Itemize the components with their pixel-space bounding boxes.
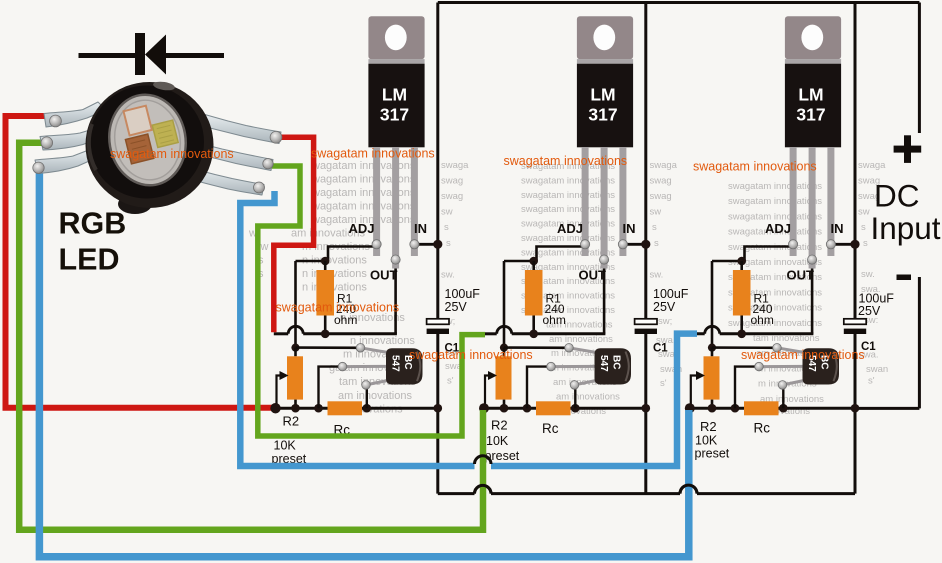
junction rail end node (block 2) <box>642 404 651 413</box>
svg-text:DC: DC <box>874 178 920 214</box>
wire R1 bottom lead (block 2) <box>532 316 535 334</box>
wire IN pin to input rail (block 2) <box>623 243 646 246</box>
junction rail start node (block 2) <box>479 403 489 413</box>
wire hop over ADJ vertical on OUT rail (block 2) <box>497 326 512 333</box>
capacitor C1 (block 2) <box>635 319 657 334</box>
svg-text:317: 317 <box>588 105 617 125</box>
transistor Q3 pin pads <box>755 344 787 390</box>
label ADJ (block 3) <box>765 221 791 236</box>
resistor Rc (block 1) <box>328 401 363 415</box>
wire green LED loop (left) to block2 rail <box>19 143 483 530</box>
wire R2 bottom lead (block 1) <box>294 400 297 409</box>
junction R1 bottom node (block 2) <box>529 330 538 339</box>
regulator U1 LM317 band <box>368 59 424 64</box>
svg-text:317: 317 <box>380 105 409 125</box>
transistor Q1 pin pads <box>338 344 370 390</box>
regulator U3 label LM317 <box>796 84 825 124</box>
svg-text:am innovations: am innovations <box>549 334 613 345</box>
resistor Rc (block 2) <box>536 401 571 415</box>
svg-text:OUT: OUT <box>370 268 398 283</box>
label Rc (block 1) <box>334 423 351 438</box>
wire blue LED to block3 OUT rail part1 <box>240 191 474 466</box>
wire hop over ADJ vertical on OUT rail (block 1) <box>288 326 303 333</box>
label C1 value 100uF 25V (block 3) <box>858 292 894 319</box>
label R2 value 10K preset (block 3) <box>695 434 730 461</box>
junction emitter node (block 3) <box>779 404 788 413</box>
wire OUT pin down (block 3) <box>811 260 814 334</box>
svg-text:s': s' <box>868 376 875 387</box>
svg-text:s: s <box>863 238 868 249</box>
svg-text:25V: 25V <box>858 304 881 318</box>
wire R1 top lead (block 2) <box>532 261 535 270</box>
RGB LED chips <box>119 100 181 164</box>
label OUT (block 1) <box>370 268 398 283</box>
junction emitter node (block 2) <box>571 404 580 413</box>
label C1 value 100uF 25V (block 2) <box>653 287 689 314</box>
svg-text:s: s <box>861 222 866 233</box>
label C1 (block 2) <box>653 343 668 355</box>
label R1 240 ohm (block 2) <box>543 292 566 327</box>
regulator U2 leg OUT <box>601 147 608 269</box>
svg-text:25V: 25V <box>653 300 676 314</box>
regulator U2 leg ADJ <box>582 147 589 256</box>
wire R2 top lead (block 2) <box>503 348 506 357</box>
svg-text:100uF: 100uF <box>445 287 481 301</box>
wire bottom negative rail <box>438 492 855 495</box>
svg-text:am innovations: am innovations <box>556 391 620 402</box>
label DC Input <box>871 178 941 247</box>
svg-text:s: s <box>654 238 659 249</box>
svg-text:swagatam innovations: swagatam innovations <box>728 196 822 207</box>
svg-text:swaga: swaga <box>441 160 469 171</box>
svg-text:n innovations: n innovations <box>302 268 367 280</box>
svg-text:LED: LED <box>59 243 120 277</box>
RGB LED pin pads <box>33 115 282 193</box>
wire input rail vertical (block 1) <box>436 3 439 494</box>
label IN (block 1) <box>414 221 427 236</box>
svg-text:10K: 10K <box>695 434 718 448</box>
resistor R1 (block 3) <box>733 270 751 316</box>
resistor R1 (block 2) <box>525 270 543 316</box>
wire emitter rail (block 3) <box>689 407 855 410</box>
pin pad ADJ (block 3) <box>789 240 798 249</box>
svg-text:BC: BC <box>611 355 622 369</box>
junction IN node (block 3) <box>850 240 859 249</box>
wire emitter to rail (block 1) <box>366 385 368 408</box>
wire hop green over blue <box>475 456 492 464</box>
label R2 (block 3) <box>700 419 717 434</box>
wire ADJ node down to R2/collector node (block 2) <box>503 261 506 348</box>
transistor Q2 BC547 leads <box>551 348 597 385</box>
pin pad ADJ (block 2) <box>581 240 590 249</box>
label IN (block 2) <box>623 221 636 236</box>
svg-text:swagatam innovations: swagatam innovations <box>693 160 817 174</box>
wire R1 top lead (block 1) <box>324 261 327 270</box>
svg-text:swagatam innovations: swagatam innovations <box>741 348 865 362</box>
svg-text:R2: R2 <box>700 419 717 434</box>
decorative orange watermark texture <box>110 147 865 363</box>
wire ADJ node down to R2/collector node (block 1) <box>294 261 297 348</box>
svg-text:ADJ: ADJ <box>765 221 791 236</box>
junction R1 top node (block 3) <box>737 257 746 266</box>
junction R1 top node (block 2) <box>529 257 538 266</box>
svg-text:preset: preset <box>695 447 730 461</box>
junction rail start node (block 3) <box>685 403 695 413</box>
junction emitter node (block 1) <box>363 404 372 413</box>
regulator U1 LM317 hole <box>385 25 407 51</box>
svg-text:25V: 25V <box>445 300 468 314</box>
svg-text:s': s' <box>660 378 667 389</box>
svg-text:sw: sw <box>650 207 662 218</box>
wire input rail vertical (block 3) <box>854 3 857 494</box>
plus terminal symbol <box>894 135 922 163</box>
regulator U2 LM317 tab <box>577 16 633 59</box>
transistor Q3 BC547 body <box>803 348 840 384</box>
svg-text:10K: 10K <box>274 439 297 453</box>
svg-text:ohm: ohm <box>751 313 774 327</box>
svg-text:10K: 10K <box>486 434 509 448</box>
junction red/wiper/rail start node (block 1) <box>270 403 280 413</box>
svg-text:s: s <box>652 222 657 233</box>
label R1 240 ohm (block 1) <box>334 292 357 327</box>
regulator U1 LM317 body <box>368 64 424 148</box>
wire input rail vertical (block 2) <box>644 3 647 494</box>
wire ADJ pin to R1 top node (block 1) <box>296 247 377 262</box>
regulator U2 LM317 band <box>577 59 633 64</box>
label C1 (block 1) <box>445 343 460 355</box>
wire green LED to block2 OUT rail <box>258 166 485 436</box>
wire R1 bottom lead (block 1) <box>324 316 327 334</box>
pin pad OUT (block 2) <box>600 255 609 264</box>
svg-text:swaga: swaga <box>858 160 886 171</box>
junction R2 bottom node (block 2) <box>500 404 509 413</box>
regulator U2 LM317 body <box>577 64 633 148</box>
svg-text:sw.: sw. <box>441 270 455 281</box>
svg-text:IN: IN <box>831 221 844 236</box>
wire OUT rail (block 2) <box>482 332 605 335</box>
svg-text:wagatam innovations: wagatam innovations <box>311 187 416 199</box>
svg-text:swagatam innovations: swagatam innovations <box>728 181 822 192</box>
svg-text:100uF: 100uF <box>653 287 689 301</box>
regulator U1 leg ADJ <box>373 147 380 256</box>
capacitor C1 (block 1) <box>427 319 449 334</box>
wire collector node to Q pin (block 1) <box>296 346 361 349</box>
capacitor C1 (block 3) <box>844 319 866 334</box>
svg-text:sw: sw <box>441 207 453 218</box>
label IN (block 3) <box>831 221 844 236</box>
junction rail end node (block 1) <box>434 404 443 413</box>
label Rc (block 2) <box>542 421 559 436</box>
junction R1 top node (block 1) <box>321 257 330 266</box>
wire R2 wiper arrow (block 1) <box>277 371 289 408</box>
label Rc (block 3) <box>754 421 771 436</box>
regulator U3 leg ADJ <box>790 147 797 256</box>
wire R2 wiper arrow (block 2) <box>485 371 497 408</box>
wire hop over ADJ vertical on OUT rail (block 3) <box>705 326 720 333</box>
junction R1 bottom node (block 3) <box>737 330 746 339</box>
pin pad IN (block 1) <box>410 240 419 249</box>
regulator U1 label LM317 <box>380 84 409 124</box>
wire OUT rail (block 3) <box>688 332 813 335</box>
label OUT (block 2) <box>579 268 607 283</box>
wire collector node to Q pin (block 2) <box>504 346 569 349</box>
preset R2 (block 2) <box>496 356 512 399</box>
wire minus to block3 rail <box>855 407 919 410</box>
svg-text:swag: swag <box>650 176 672 187</box>
wire +V top rail <box>438 1 920 4</box>
wire red LED to block1 OUT rail <box>274 137 314 332</box>
regulator U2 label LM317 <box>588 84 617 124</box>
svg-text:R2: R2 <box>491 418 508 433</box>
wire IN pin to input rail (block 1) <box>414 243 437 246</box>
svg-text:sw.: sw. <box>861 269 875 280</box>
svg-text:swagatam innovations: swagatam innovations <box>276 300 400 314</box>
wire base to rail (block 1) <box>319 367 343 409</box>
regulator U1 leg OUT <box>392 147 399 269</box>
svg-text:swagatam innovations: swagatam innovations <box>504 154 628 168</box>
wire R1 top lead (block 3) <box>740 261 743 270</box>
svg-text:s: s <box>444 222 449 233</box>
svg-text:IN: IN <box>623 221 636 236</box>
RGB LED pins <box>35 102 281 195</box>
RGB LED lens <box>102 89 193 192</box>
wire hop redraw bottom rail arcs <box>475 485 698 493</box>
label ADJ (block 2) <box>557 221 583 236</box>
wire R2 bottom lead (block 3) <box>711 400 714 409</box>
svg-text:swag: swag <box>441 191 463 202</box>
regulator U1 leg IN <box>411 147 418 256</box>
transistor Q2 pin pads <box>547 344 579 390</box>
svg-text:wagatam innovations: wagatam innovations <box>311 201 416 213</box>
svg-text:sw;: sw; <box>658 316 672 327</box>
diode symbol cathode bar <box>135 33 145 75</box>
regulator U3 LM317 tab <box>785 16 841 59</box>
junction ADJ/R2/collector node (block 2) <box>500 344 508 352</box>
junction base node (block 1) <box>314 404 323 413</box>
label C1 value 100uF 25V (block 1) <box>445 287 481 314</box>
resistor R1 (block 1) <box>316 270 334 316</box>
wire R2 bottom lead (block 2) <box>503 400 506 409</box>
junction IN node (block 1) <box>433 240 442 249</box>
preset R2 (block 3) <box>704 356 720 399</box>
regulator U2 LM317 hole <box>593 25 615 51</box>
svg-text:Rc: Rc <box>754 421 771 436</box>
wire blue LED loop (left) to block3 rail <box>39 168 688 557</box>
svg-text:Rc: Rc <box>542 421 559 436</box>
wire red LED anode loop (left) <box>6 116 275 408</box>
label R2 value 10K preset (block 1) <box>272 439 307 467</box>
regulator U3 LM317 body <box>785 64 841 148</box>
svg-text:RGB: RGB <box>59 207 127 241</box>
svg-text:am innovations: am innovations <box>338 390 412 402</box>
decorative gray watermark texture <box>248 160 888 417</box>
pin pad OUT (block 1) <box>391 255 400 264</box>
regulator U3 LM317 hole <box>801 25 823 51</box>
svg-text:547: 547 <box>390 355 401 372</box>
wire OUT pin down (block 2) <box>603 260 606 334</box>
svg-text:swagatam innovations: swagatam innovations <box>409 348 533 362</box>
label OUT (block 3) <box>787 268 815 283</box>
svg-text:s: s <box>446 238 451 249</box>
transistor Q3 BC547 leads <box>759 348 805 385</box>
svg-text:sw: sw <box>858 207 870 218</box>
svg-text:547: 547 <box>598 355 609 372</box>
transistor Q1 BC547 body <box>386 348 423 384</box>
label R1 240 ohm (block 3) <box>751 292 774 327</box>
transistor Q1 BC547 leads <box>343 348 389 385</box>
wire emitter rail (block 2) <box>483 407 646 410</box>
label R2 value 10K preset (block 2) <box>485 434 520 463</box>
wire R2 top lead (block 3) <box>711 348 714 357</box>
wire R2 top lead (block 1) <box>294 348 297 357</box>
wire blue LED to block3 OUT rail part2 <box>491 334 697 466</box>
minus terminal symbol <box>897 275 912 281</box>
transistor Q2 BC547 body <box>595 348 632 384</box>
svg-text:swag: swag <box>441 176 463 187</box>
svg-text:swag: swag <box>650 191 672 202</box>
svg-text:ADJ: ADJ <box>557 221 583 236</box>
regulator U3 LM317 band <box>785 59 841 64</box>
regulator U1 LM317 tab <box>368 16 424 59</box>
regulator U2 leg IN <box>619 147 626 256</box>
svg-text:ohm: ohm <box>334 313 357 327</box>
wire emitter to rail (block 3) <box>782 385 784 408</box>
junction ADJ/R2/collector node (block 1) <box>291 344 299 352</box>
resistor Rc (block 3) <box>744 401 779 415</box>
svg-text:n innovations: n innovations <box>302 282 367 294</box>
svg-text:ohm: ohm <box>543 313 566 327</box>
svg-text:swaga: swaga <box>650 160 678 171</box>
wire ADJ pin to R1 top node (block 2) <box>504 247 585 262</box>
preset R2 (block 1) <box>287 356 303 399</box>
svg-text:OUT: OUT <box>579 268 607 283</box>
label C1 (block 3) <box>861 341 876 353</box>
regulator U3 leg IN <box>827 147 834 256</box>
wire ADJ node down to R2/collector node (block 3) <box>711 261 714 348</box>
pin pad IN (block 3) <box>826 240 835 249</box>
wire base to rail (block 3) <box>735 367 759 409</box>
wire OUT rail (block 1) <box>274 332 397 335</box>
wire ADJ pin to R1 top node (block 3) <box>712 247 793 262</box>
wire R1 bottom lead (block 3) <box>740 316 743 334</box>
wire collector node to Q pin (block 3) <box>712 346 777 349</box>
svg-text:C1: C1 <box>653 343 668 355</box>
junction rail end node (block 3) <box>851 404 860 413</box>
wire hop over blue at bottom rail <box>680 485 697 493</box>
pin pad IN (block 2) <box>618 240 627 249</box>
junction R2 bottom node (block 1) <box>291 404 300 413</box>
wire minus terminal drop <box>918 277 921 408</box>
svg-text:Input: Input <box>871 210 941 246</box>
wire emitter rail (block 1) <box>275 407 438 410</box>
wire +V right drop to plus terminal <box>918 3 921 134</box>
svg-text:IN: IN <box>414 221 427 236</box>
wire hop over green at bottom rail <box>475 485 492 493</box>
svg-text:wagatam innovations: wagatam innovations <box>311 174 416 186</box>
svg-text:OUT: OUT <box>787 268 815 283</box>
svg-text:s': s' <box>447 376 454 387</box>
svg-text:swan: swan <box>866 364 888 375</box>
label R2 (block 2) <box>491 418 508 433</box>
junction IN node (block 2) <box>641 240 650 249</box>
label RGB LED <box>59 207 127 277</box>
wire OUT pin down (block 1) <box>394 260 397 334</box>
junction ADJ/R2/collector node (block 3) <box>708 344 716 352</box>
junction R1 bottom node (block 1) <box>321 330 330 339</box>
RGB LED body <box>86 80 214 214</box>
svg-text:LM: LM <box>798 84 823 104</box>
svg-text:LM: LM <box>382 84 407 104</box>
pin pad ADJ (block 1) <box>372 240 381 249</box>
diode symbol <box>79 35 225 75</box>
label ADJ (block 1) <box>349 221 375 236</box>
svg-text:wagatam innovations: wagatam innovations <box>311 160 416 172</box>
svg-text:317: 317 <box>796 105 825 125</box>
junction base node (block 3) <box>731 404 740 413</box>
svg-text:R2: R2 <box>283 414 300 429</box>
label R2 (block 1) <box>283 414 300 429</box>
svg-text:swagatam innovations: swagatam innovations <box>311 147 435 161</box>
wire R2 wiper arrow (block 3) <box>691 371 705 408</box>
junction R2 bottom node (block 3) <box>708 404 717 413</box>
junction base node (block 2) <box>523 404 532 413</box>
svg-text:LM: LM <box>590 84 615 104</box>
wire base to rail (block 2) <box>527 367 551 409</box>
wire IN pin to input rail (block 3) <box>831 243 855 246</box>
svg-text:sw.: sw. <box>650 270 664 281</box>
junction rail start node (block 1) <box>271 403 281 413</box>
regulator U3 leg OUT <box>809 147 816 269</box>
svg-text:ADJ: ADJ <box>349 221 375 236</box>
pin pad OUT (block 3) <box>808 255 817 264</box>
wire emitter to rail (block 2) <box>574 385 576 408</box>
svg-text:swagatam innovations: swagatam innovations <box>110 147 234 161</box>
